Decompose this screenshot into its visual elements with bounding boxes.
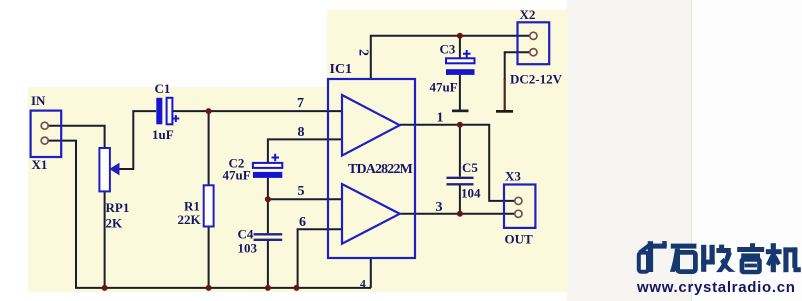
svg-text:C1: C1 (155, 81, 171, 96)
svg-text:1uF: 1uF (152, 127, 174, 142)
svg-text:103: 103 (238, 241, 258, 256)
svg-text:TDA2822M: TDA2822M (348, 162, 413, 177)
svg-text:2K: 2K (106, 216, 124, 231)
svg-text:2: 2 (355, 49, 370, 56)
svg-text:3: 3 (436, 200, 443, 215)
svg-text:47uF: 47uF (223, 167, 251, 182)
svg-text:C4: C4 (238, 227, 254, 242)
svg-text:DC2-12V: DC2-12V (510, 71, 563, 86)
svg-text:RP1: RP1 (106, 200, 130, 215)
svg-text:4: 4 (360, 279, 366, 291)
svg-text:47uF: 47uF (430, 80, 458, 95)
svg-text:6: 6 (299, 215, 306, 230)
svg-text:1: 1 (437, 111, 444, 126)
svg-text:IN: IN (31, 93, 46, 108)
svg-text:OUT: OUT (505, 232, 534, 247)
svg-text:22K: 22K (178, 212, 202, 227)
svg-text:www.crystalradio.cn: www.crystalradio.cn (636, 279, 796, 296)
svg-text:8: 8 (298, 125, 305, 140)
svg-text:X1: X1 (32, 157, 48, 172)
svg-text:C5: C5 (462, 160, 478, 175)
svg-text:104: 104 (461, 186, 481, 201)
svg-text:IC1: IC1 (330, 62, 353, 77)
svg-text:C3: C3 (440, 41, 456, 56)
svg-text:5: 5 (298, 184, 305, 199)
svg-text:X3: X3 (505, 169, 521, 184)
svg-text:X2: X2 (520, 7, 536, 22)
svg-text:7: 7 (297, 96, 304, 111)
